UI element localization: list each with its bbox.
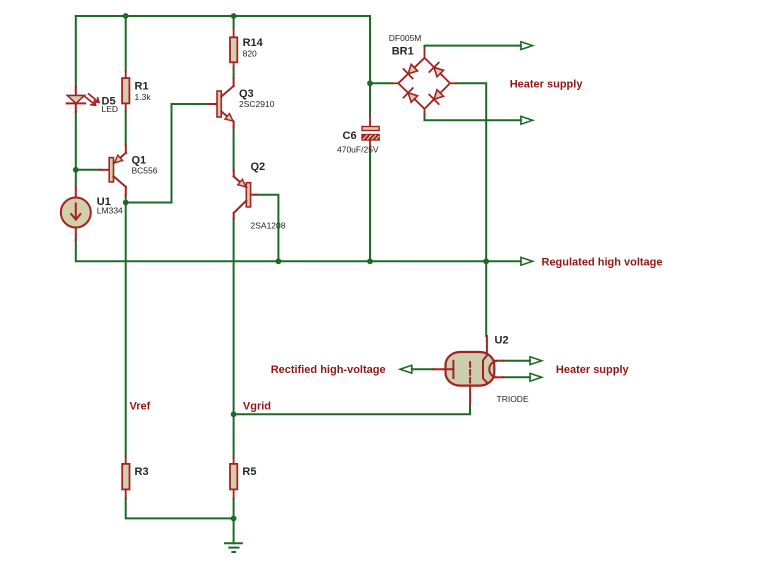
- ground: [225, 518, 242, 552]
- wire Q1 collector to node: [125, 195, 127, 202]
- wire bridge bottom to heater terminal: [425, 114, 521, 120]
- wire R5 bottom to ground node: [233, 498, 235, 518]
- node junction Vgrid: [231, 411, 237, 417]
- wire U2 heater pin top: [503, 360, 530, 362]
- wire rectified terminal to U2: [412, 368, 434, 370]
- svg-text:470uF/25V: 470uF/25V: [337, 145, 379, 155]
- node junction C6 on rail: [367, 258, 373, 264]
- wire Vgrid line to U2 grid: [234, 405, 470, 414]
- svg-text:Heater supply: Heater supply: [510, 79, 584, 91]
- svg-text:LM334: LM334: [97, 206, 123, 216]
- svg-text:2SC2910: 2SC2910: [239, 99, 275, 109]
- svg-text:Vref: Vref: [130, 401, 151, 413]
- wire Vref branch: [125, 203, 127, 458]
- svg-text:1.3k: 1.3k: [135, 92, 152, 102]
- wire bridge top to heater terminal: [425, 46, 521, 48]
- triode U2: [433, 336, 503, 405]
- resistor R3: [122, 457, 129, 498]
- terminal heater supply bottom: [521, 116, 533, 124]
- svg-text:LED: LED: [102, 104, 119, 114]
- wire node to Q3 base: [126, 104, 209, 203]
- transistor Q3: [209, 78, 234, 128]
- wire U2 heater pin bottom: [503, 376, 530, 378]
- diode D-TL: [408, 64, 418, 74]
- LED D5: [67, 87, 99, 112]
- resistor R5: [230, 457, 237, 498]
- wire Q2 collector to Vgrid and R5: [233, 219, 235, 458]
- terminal heater supply top: [521, 42, 533, 50]
- bridge rectifier BR1: [392, 48, 456, 114]
- wire Q2 base to regulated rail: [256, 195, 279, 262]
- wire R14 bottom to Q3 collector: [233, 68, 235, 78]
- terminal regulated high voltage: [521, 257, 533, 265]
- svg-text:R1: R1: [135, 81, 149, 93]
- current source U1: [61, 186, 91, 240]
- svg-text:C6: C6: [343, 130, 357, 142]
- wire R3 bottom to ground node: [126, 498, 234, 518]
- diode D-TR: [434, 67, 444, 77]
- diode D-BL: [408, 93, 418, 103]
- capacitor C6: [362, 115, 379, 148]
- wire U1 bottom to regulated rail: [76, 240, 521, 261]
- resistor R1: [122, 71, 129, 112]
- wire R14 top: [233, 16, 235, 28]
- node junction LED / Q1 base: [73, 167, 79, 173]
- node junction Q2 base on rail: [276, 258, 282, 264]
- wire Q1 base: [76, 169, 100, 171]
- node junction ground: [231, 516, 237, 522]
- svg-text:R14: R14: [243, 37, 264, 49]
- wire bridge right down to U2 anode: [456, 83, 486, 336]
- svg-text:TRIODE: TRIODE: [497, 394, 529, 404]
- node junction U2 anode on rail: [483, 258, 489, 264]
- wire R1 bottom to Q1 emitter: [125, 111, 127, 144]
- terminal U2 heater top: [530, 357, 542, 365]
- transistor Q1: [100, 144, 126, 195]
- svg-text:BC556: BC556: [132, 166, 158, 176]
- wire R1 top: [125, 16, 127, 71]
- node junction top rail R14: [231, 13, 237, 19]
- node junction Q1 collector: [123, 200, 129, 206]
- wire Q3 emitter to Q2 emitter: [233, 128, 235, 171]
- wire bridge left tee: [370, 82, 392, 84]
- wire C6 bottom to regulated rail: [369, 148, 371, 261]
- wire top rail down to C6: [369, 16, 371, 115]
- svg-text:BR1: BR1: [392, 46, 414, 58]
- node junction top rail R1: [123, 13, 129, 19]
- svg-text:Rectified high-voltage: Rectified high-voltage: [271, 364, 386, 376]
- svg-text:Heater supply: Heater supply: [556, 364, 630, 376]
- transistor Q2: [234, 170, 256, 219]
- diode D-BR: [434, 90, 444, 100]
- svg-text:R3: R3: [135, 466, 149, 478]
- svg-text:R5: R5: [242, 466, 256, 478]
- svg-text:2SA1208: 2SA1208: [251, 221, 286, 231]
- svg-text:DF005M: DF005M: [389, 33, 422, 43]
- svg-text:820: 820: [243, 49, 257, 59]
- node junction bridge left: [367, 80, 373, 86]
- svg-text:Regulated high voltage: Regulated high voltage: [542, 256, 663, 268]
- terminal rectified high-voltage: [400, 365, 412, 373]
- wire LED to U1: [75, 112, 77, 186]
- wire top rail: [76, 15, 370, 17]
- terminal U2 heater bottom: [530, 373, 542, 381]
- svg-text:Vgrid: Vgrid: [243, 401, 271, 413]
- resistor R14: [230, 28, 237, 68]
- svg-text:U2: U2: [495, 335, 509, 347]
- svg-text:Q2: Q2: [251, 161, 266, 173]
- wire left branch top: [75, 16, 77, 87]
